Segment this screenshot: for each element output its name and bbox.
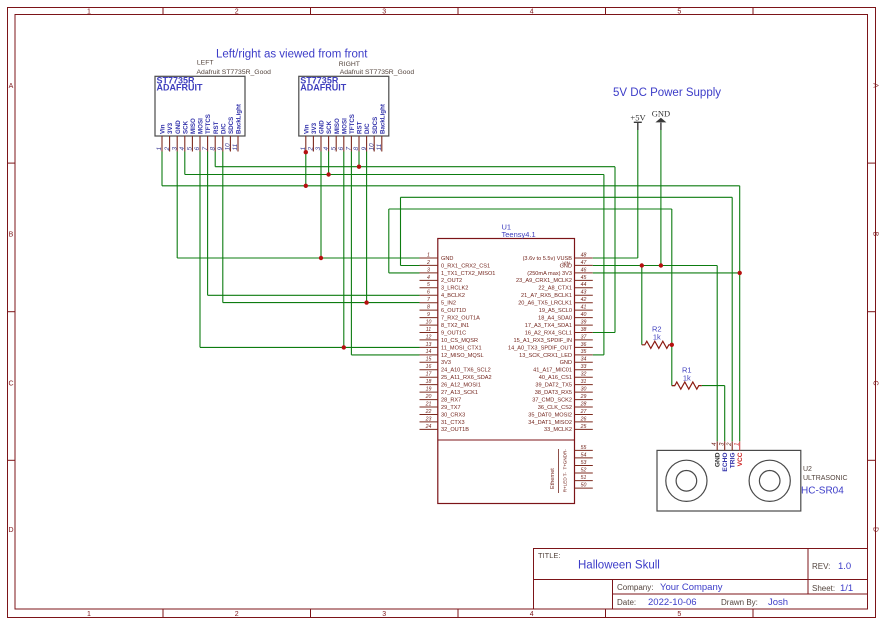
svg-text:16: 16 bbox=[426, 364, 432, 370]
svg-text:16_A2_RX4_SCL1: 16_A2_RX4_SCL1 bbox=[525, 330, 572, 336]
svg-text:8: 8 bbox=[209, 147, 216, 151]
svg-text:8: 8 bbox=[353, 147, 360, 151]
svg-text:14_A0_TX3_SPDIF_OUT: 14_A0_TX3_SPDIF_OUT bbox=[508, 345, 573, 351]
svg-text:+5V: +5V bbox=[630, 112, 646, 122]
svg-text:32_OUT1B: 32_OUT1B bbox=[441, 427, 469, 433]
svg-text:1k: 1k bbox=[653, 333, 661, 342]
svg-text:HC-SR04: HC-SR04 bbox=[801, 486, 844, 497]
svg-text:38: 38 bbox=[581, 327, 587, 333]
svg-text:1: 1 bbox=[87, 9, 91, 16]
svg-text:1: 1 bbox=[156, 147, 163, 151]
svg-text:6_OUT1D: 6_OUT1D bbox=[441, 308, 466, 314]
svg-text:GND: GND bbox=[441, 256, 453, 262]
svg-text:Vin: Vin bbox=[303, 124, 310, 134]
svg-text:ADAFRUIT: ADAFRUIT bbox=[300, 83, 346, 93]
svg-text:6: 6 bbox=[338, 147, 345, 151]
svg-text:Sheet:: Sheet: bbox=[812, 584, 835, 593]
svg-text:1: 1 bbox=[735, 443, 741, 446]
svg-text:2: 2 bbox=[235, 9, 239, 16]
svg-text:MISO: MISO bbox=[190, 118, 197, 134]
svg-text:GND: GND bbox=[563, 453, 568, 464]
svg-text:9: 9 bbox=[361, 147, 368, 151]
svg-text:19: 19 bbox=[426, 387, 432, 393]
svg-text:29: 29 bbox=[580, 394, 587, 400]
svg-text:ECHO: ECHO bbox=[722, 453, 729, 472]
svg-text:LEFT: LEFT bbox=[197, 59, 214, 66]
svg-text:T+: T+ bbox=[563, 464, 568, 470]
svg-text:23_A9_CRX1_MCLK2: 23_A9_CRX1_MCLK2 bbox=[516, 278, 572, 284]
svg-text:33: 33 bbox=[581, 364, 587, 370]
svg-text:2022-10-06: 2022-10-06 bbox=[648, 597, 697, 608]
svg-text:55: 55 bbox=[581, 445, 587, 451]
svg-text:Adafruit ST7735R_Good: Adafruit ST7735R_Good bbox=[340, 69, 415, 76]
svg-text:5: 5 bbox=[677, 9, 681, 16]
svg-text:1: 1 bbox=[87, 611, 91, 618]
svg-text:21_A7_RX5_BCLK1: 21_A7_RX5_BCLK1 bbox=[521, 293, 572, 299]
svg-text:31_CTX3: 31_CTX3 bbox=[441, 420, 465, 426]
svg-text:26_A12_MOSI1: 26_A12_MOSI1 bbox=[441, 383, 481, 389]
svg-text:7_RX2_OUT1A: 7_RX2_OUT1A bbox=[441, 316, 480, 322]
svg-text:22_A8_CTX1: 22_A8_CTX1 bbox=[538, 286, 572, 292]
svg-text:17_A3_TX4_SDA1: 17_A3_TX4_SDA1 bbox=[525, 323, 572, 329]
svg-text:2: 2 bbox=[308, 147, 315, 152]
svg-text:(250mA max) 3V3: (250mA max) 3V3 bbox=[527, 271, 572, 277]
svg-text:20: 20 bbox=[425, 394, 432, 400]
svg-text:35_DAT0_MOSI2: 35_DAT0_MOSI2 bbox=[528, 412, 572, 418]
svg-text:3V3: 3V3 bbox=[311, 122, 318, 134]
svg-text:11_MOSI_CTX1: 11_MOSI_CTX1 bbox=[441, 345, 482, 351]
svg-text:12: 12 bbox=[426, 334, 432, 340]
svg-text:1_TX1_CTX2_MISO1: 1_TX1_CTX2_MISO1 bbox=[441, 271, 495, 277]
svg-text:6: 6 bbox=[427, 290, 430, 296]
svg-text:12_MISO_MQSL: 12_MISO_MQSL bbox=[441, 353, 484, 359]
svg-text:Teensy4.1: Teensy4.1 bbox=[502, 230, 536, 239]
svg-text:2: 2 bbox=[727, 442, 733, 447]
svg-text:27_A13_SCK1: 27_A13_SCK1 bbox=[441, 390, 478, 396]
svg-text:6: 6 bbox=[194, 147, 201, 151]
svg-text:37_CMD_SCK2: 37_CMD_SCK2 bbox=[532, 397, 572, 403]
svg-text:32: 32 bbox=[581, 372, 587, 378]
svg-text:RST: RST bbox=[213, 121, 220, 134]
svg-text:28_RX7: 28_RX7 bbox=[441, 397, 461, 403]
svg-text:5: 5 bbox=[677, 611, 681, 618]
svg-text:TRIG: TRIG bbox=[730, 453, 737, 469]
svg-text:Halloween Skull: Halloween Skull bbox=[578, 560, 660, 572]
svg-text:14: 14 bbox=[426, 349, 432, 355]
svg-text:TITLE:: TITLE: bbox=[538, 551, 561, 560]
svg-text:C: C bbox=[8, 381, 13, 388]
svg-text:25: 25 bbox=[580, 424, 587, 430]
svg-text:4_BCLK2: 4_BCLK2 bbox=[441, 293, 465, 299]
svg-text:40: 40 bbox=[581, 312, 587, 318]
svg-text:TFTCS: TFTCS bbox=[205, 114, 212, 134]
svg-text:GND: GND bbox=[319, 120, 326, 134]
svg-text:52: 52 bbox=[581, 467, 587, 473]
svg-text:1: 1 bbox=[427, 252, 430, 258]
svg-text:30: 30 bbox=[581, 387, 587, 393]
svg-text:R-: R- bbox=[563, 449, 568, 454]
svg-text:2_OUT2: 2_OUT2 bbox=[441, 278, 462, 284]
svg-text:7: 7 bbox=[202, 147, 209, 151]
svg-text:GND: GND bbox=[560, 360, 572, 366]
svg-text:4: 4 bbox=[179, 147, 186, 151]
svg-text:1.0: 1.0 bbox=[838, 561, 851, 572]
svg-text:MOSI: MOSI bbox=[198, 118, 205, 134]
svg-text:13: 13 bbox=[426, 342, 432, 348]
svg-text:D/C: D/C bbox=[364, 123, 371, 134]
svg-text:0_RX1_CRX2_CS1: 0_RX1_CRX2_CS1 bbox=[441, 263, 490, 269]
svg-text:2: 2 bbox=[426, 260, 430, 266]
svg-text:Drawn By:: Drawn By: bbox=[721, 598, 758, 607]
svg-text:15_A1_RX3_SPDIF_IN: 15_A1_RX3_SPDIF_IN bbox=[514, 338, 572, 344]
svg-text:39: 39 bbox=[581, 319, 587, 325]
svg-text:5V DC Power Supply: 5V DC Power Supply bbox=[613, 87, 721, 99]
svg-text:41_A17_MIC01: 41_A17_MIC01 bbox=[533, 368, 572, 374]
svg-text:SDCS: SDCS bbox=[372, 117, 379, 134]
svg-text:GND: GND bbox=[175, 120, 182, 134]
svg-text:BackLight: BackLight bbox=[236, 104, 243, 134]
svg-text:ADAFRUIT: ADAFRUIT bbox=[157, 83, 203, 93]
svg-text:4: 4 bbox=[323, 147, 330, 151]
svg-text:A: A bbox=[9, 83, 14, 90]
svg-text:10: 10 bbox=[225, 143, 232, 151]
svg-text:46: 46 bbox=[581, 267, 587, 273]
svg-text:33_MCLK2: 33_MCLK2 bbox=[544, 427, 572, 433]
svg-text:34: 34 bbox=[581, 357, 587, 363]
svg-text:3: 3 bbox=[382, 611, 386, 618]
svg-text:SCK: SCK bbox=[182, 120, 189, 134]
svg-text:28: 28 bbox=[580, 401, 587, 407]
svg-text:5_IN2: 5_IN2 bbox=[441, 301, 456, 307]
svg-text:1/1: 1/1 bbox=[840, 583, 853, 594]
svg-text:B: B bbox=[9, 232, 14, 239]
svg-text:SCK: SCK bbox=[326, 120, 333, 134]
svg-text:5: 5 bbox=[330, 147, 337, 151]
svg-text:35: 35 bbox=[581, 349, 587, 355]
svg-text:D: D bbox=[8, 527, 13, 534]
svg-text:30_CRX3: 30_CRX3 bbox=[441, 412, 465, 418]
svg-text:R+: R+ bbox=[563, 486, 568, 492]
svg-text:5: 5 bbox=[187, 147, 194, 151]
svg-text:11: 11 bbox=[232, 143, 239, 150]
svg-text:3_LRCLK2: 3_LRCLK2 bbox=[441, 286, 468, 292]
svg-text:Date:: Date: bbox=[617, 598, 636, 607]
svg-text:D: D bbox=[872, 527, 879, 532]
svg-text:T-: T- bbox=[563, 472, 568, 477]
svg-text:2: 2 bbox=[235, 611, 239, 618]
svg-text:24: 24 bbox=[425, 424, 432, 430]
svg-text:RIGHT: RIGHT bbox=[339, 61, 360, 68]
svg-text:GND: GND bbox=[560, 263, 572, 269]
svg-text:3: 3 bbox=[171, 147, 178, 151]
svg-text:BackLight: BackLight bbox=[379, 104, 386, 134]
svg-text:11: 11 bbox=[376, 143, 383, 150]
svg-text:4: 4 bbox=[530, 611, 534, 618]
svg-text:REV:: REV: bbox=[812, 562, 830, 571]
svg-text:24_A10_TX6_SCL2: 24_A10_TX6_SCL2 bbox=[441, 368, 491, 374]
svg-text:B: B bbox=[872, 232, 879, 237]
svg-text:42: 42 bbox=[581, 297, 587, 303]
svg-text:Company:: Company: bbox=[617, 583, 653, 592]
svg-text:45: 45 bbox=[581, 275, 587, 281]
svg-text:1k: 1k bbox=[683, 374, 691, 383]
svg-text:Your Company: Your Company bbox=[660, 582, 723, 593]
svg-text:SDCS: SDCS bbox=[228, 117, 235, 134]
svg-text:10: 10 bbox=[426, 319, 432, 325]
svg-text:VCC: VCC bbox=[737, 452, 744, 466]
svg-text:44: 44 bbox=[581, 282, 587, 288]
svg-text:39_DAT2_TX5: 39_DAT2_TX5 bbox=[535, 383, 572, 389]
svg-text:20_A6_TX5_LRCLK1: 20_A6_TX5_LRCLK1 bbox=[518, 301, 572, 307]
svg-text:U2: U2 bbox=[803, 466, 812, 473]
svg-text:54: 54 bbox=[581, 452, 587, 458]
svg-text:2: 2 bbox=[164, 147, 171, 152]
svg-text:GND: GND bbox=[652, 109, 670, 119]
svg-text:8: 8 bbox=[427, 305, 430, 311]
svg-text:43: 43 bbox=[581, 290, 587, 296]
svg-text:31: 31 bbox=[581, 379, 587, 385]
svg-text:9: 9 bbox=[427, 312, 430, 318]
svg-text:Vin: Vin bbox=[160, 124, 167, 134]
svg-text:5: 5 bbox=[427, 282, 430, 288]
svg-text:7: 7 bbox=[346, 147, 353, 151]
svg-text:Josh: Josh bbox=[768, 597, 788, 608]
svg-text:LED: LED bbox=[563, 477, 568, 487]
svg-text:D/C: D/C bbox=[220, 123, 227, 134]
svg-text:19_A5_SCL0: 19_A5_SCL0 bbox=[539, 308, 572, 314]
svg-text:41: 41 bbox=[581, 305, 587, 311]
svg-text:Left/right as viewed from fron: Left/right as viewed from front bbox=[216, 49, 368, 61]
svg-text:GND: GND bbox=[715, 452, 722, 467]
svg-text:36_CLK_CS2: 36_CLK_CS2 bbox=[538, 405, 572, 411]
svg-text:1: 1 bbox=[300, 147, 307, 151]
svg-text:21: 21 bbox=[425, 401, 432, 407]
svg-text:Adafruit ST7735R_Good: Adafruit ST7735R_Good bbox=[197, 69, 272, 76]
svg-text:51: 51 bbox=[581, 475, 587, 481]
svg-text:3V3: 3V3 bbox=[441, 360, 451, 366]
svg-text:3: 3 bbox=[382, 9, 386, 16]
svg-text:3: 3 bbox=[427, 267, 430, 273]
svg-text:MOSI: MOSI bbox=[341, 118, 348, 134]
svg-text:3: 3 bbox=[315, 147, 322, 151]
svg-text:38_DAT3_RX5: 38_DAT3_RX5 bbox=[535, 390, 572, 396]
svg-text:18_A4_SDA0: 18_A4_SDA0 bbox=[538, 316, 572, 322]
svg-text:22: 22 bbox=[425, 409, 432, 415]
svg-text:23: 23 bbox=[425, 416, 432, 422]
svg-text:RST: RST bbox=[357, 121, 364, 134]
svg-text:10: 10 bbox=[368, 143, 375, 151]
svg-text:4: 4 bbox=[530, 9, 534, 16]
svg-text:48: 48 bbox=[581, 252, 587, 258]
svg-text:26: 26 bbox=[580, 416, 587, 422]
svg-text:53: 53 bbox=[581, 460, 587, 466]
svg-text:36: 36 bbox=[581, 342, 587, 348]
svg-text:C: C bbox=[872, 380, 879, 385]
svg-text:8_TX2_IN1: 8_TX2_IN1 bbox=[441, 323, 469, 329]
svg-text:25_A11_RX6_SDA2: 25_A11_RX6_SDA2 bbox=[441, 375, 492, 381]
svg-text:4: 4 bbox=[427, 275, 430, 281]
svg-text:MISO: MISO bbox=[334, 118, 341, 134]
svg-text:50: 50 bbox=[581, 483, 587, 489]
svg-text:10_CS_MQSR: 10_CS_MQSR bbox=[441, 338, 478, 344]
svg-text:TFTCS: TFTCS bbox=[349, 114, 356, 134]
svg-text:15: 15 bbox=[426, 357, 432, 363]
svg-text:ULTRASONIC: ULTRASONIC bbox=[803, 475, 848, 482]
svg-text:9_OUT1C: 9_OUT1C bbox=[441, 330, 466, 336]
svg-text:34_DAT1_MISO2: 34_DAT1_MISO2 bbox=[528, 420, 572, 426]
svg-text:18: 18 bbox=[426, 379, 432, 385]
svg-text:40_A16_CS1: 40_A16_CS1 bbox=[539, 375, 572, 381]
svg-text:9: 9 bbox=[217, 147, 224, 151]
svg-text:13_SCK_CRX1_LED: 13_SCK_CRX1_LED bbox=[519, 353, 572, 359]
svg-text:27: 27 bbox=[580, 409, 588, 415]
svg-text:11: 11 bbox=[426, 327, 431, 333]
svg-text:Ethernet: Ethernet bbox=[550, 468, 556, 489]
svg-text:A: A bbox=[872, 83, 879, 88]
svg-text:29_TX7: 29_TX7 bbox=[441, 405, 461, 411]
svg-text:3V3: 3V3 bbox=[167, 122, 174, 134]
